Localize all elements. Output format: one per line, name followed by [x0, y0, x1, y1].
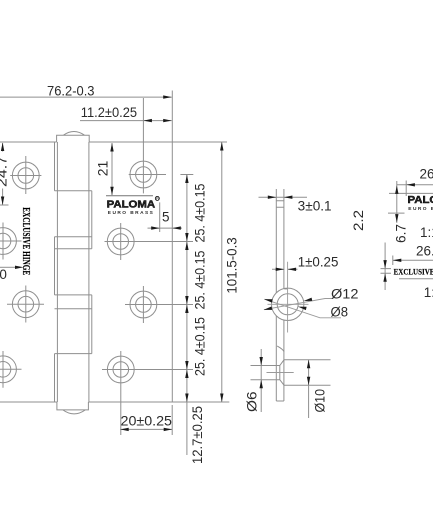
svg-text:PALOMA: PALOMA — [107, 199, 156, 210]
svg-text:11.2±0.25: 11.2±0.25 — [81, 105, 137, 120]
svg-text:76.2-0.3: 76.2-0.3 — [47, 83, 95, 98]
svg-text:EURO BRASS: EURO BRASS — [408, 206, 433, 212]
svg-text:20±0.25: 20±0.25 — [121, 414, 173, 429]
svg-text:Ø12: Ø12 — [331, 286, 359, 301]
svg-text:5: 5 — [162, 209, 170, 224]
svg-text:EXCLUSIVE HINGE: EXCLUSIVE HINGE — [20, 207, 31, 275]
svg-text:PALOMA: PALOMA — [408, 195, 433, 206]
svg-text:2.2: 2.2 — [351, 210, 366, 231]
svg-text:3±0.1: 3±0.1 — [298, 199, 332, 214]
svg-text:26.2: 26.2 — [416, 244, 433, 259]
svg-text:26.2: 26.2 — [420, 167, 433, 182]
svg-text:24.7: 24.7 — [0, 156, 9, 187]
svg-text:Ø10: Ø10 — [313, 389, 328, 413]
svg-text:1:1: 1:1 — [424, 285, 433, 300]
svg-text:Ø8: Ø8 — [331, 305, 349, 320]
svg-text:R: R — [156, 196, 159, 201]
svg-text:EXCLUSIVE HINGE: EXCLUSIVE HINGE — [394, 267, 433, 277]
svg-text:21: 21 — [95, 161, 110, 177]
svg-text:1±0.25: 1±0.25 — [298, 255, 339, 270]
svg-text:Ø6: Ø6 — [245, 392, 260, 413]
svg-text:25. 4±0.15: 25. 4±0.15 — [192, 184, 207, 243]
svg-text:0: 0 — [0, 267, 7, 282]
svg-text:101.5-0.3: 101.5-0.3 — [225, 237, 240, 293]
svg-text:25. 4±0.15: 25. 4±0.15 — [192, 251, 207, 310]
svg-text:EURO BRASS: EURO BRASS — [108, 210, 154, 216]
svg-text:25. 4±0.15: 25. 4±0.15 — [192, 317, 207, 376]
svg-text:6.7: 6.7 — [394, 224, 409, 243]
svg-text:12.7±0.25: 12.7±0.25 — [190, 406, 205, 464]
svg-text:1:1: 1:1 — [420, 225, 433, 240]
